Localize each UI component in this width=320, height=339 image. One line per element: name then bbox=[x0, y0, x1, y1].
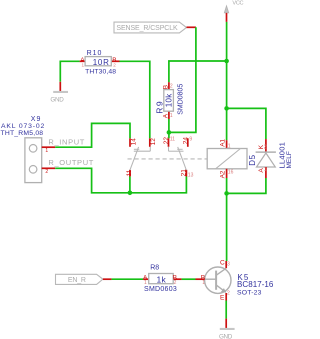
svg-text:B: B bbox=[163, 85, 170, 89]
svg-text:2: 2 bbox=[113, 63, 116, 68]
svg-text:10R: 10R bbox=[93, 58, 110, 67]
svg-text:SMD0603: SMD0603 bbox=[144, 286, 177, 293]
svg-text:2: 2 bbox=[170, 84, 173, 90]
svg-text:R8: R8 bbox=[150, 264, 159, 271]
svg-text:R_OUTPUT: R_OUTPUT bbox=[48, 158, 94, 167]
svg-text:9: 9 bbox=[189, 136, 192, 142]
svg-text:A2: A2 bbox=[220, 170, 227, 178]
svg-text:THT30,48: THT30,48 bbox=[85, 69, 116, 76]
svg-text:SMD0805: SMD0805 bbox=[177, 84, 184, 115]
supply VCC bbox=[224, 1, 243, 22]
wire R_INPUT bbox=[55, 123, 130, 147]
svg-text:C: C bbox=[220, 260, 225, 267]
wire R8 to base bbox=[182, 278, 196, 280]
label SENSE_R/CSPCLK bbox=[114, 22, 196, 33]
wire R9 top branch bbox=[169, 61, 227, 82]
svg-text:MELF: MELF bbox=[286, 151, 292, 168]
svg-text:2: 2 bbox=[45, 169, 48, 175]
wire SENSE net bbox=[169, 27, 196, 132]
svg-text:11: 11 bbox=[126, 169, 133, 176]
svg-text:3: 3 bbox=[227, 262, 230, 268]
junction dot A2 net bbox=[224, 191, 229, 196]
svg-text:A: A bbox=[163, 113, 170, 118]
svg-text:SOT-23: SOT-23 bbox=[237, 290, 262, 297]
svg-text:1: 1 bbox=[202, 280, 205, 286]
resistor R9 bbox=[155, 82, 185, 119]
wire pin11 down bbox=[129, 177, 131, 193]
junction dot VCC/R9 bbox=[224, 59, 229, 64]
svg-text:2: 2 bbox=[227, 291, 230, 297]
svg-text:16: 16 bbox=[228, 170, 234, 176]
svg-text:BC817-16: BC817-16 bbox=[237, 280, 274, 289]
resistor R8 bbox=[143, 264, 182, 293]
svg-text:X9: X9 bbox=[31, 116, 42, 123]
junction dot rail/pin11 bbox=[128, 191, 133, 196]
svg-text:1: 1 bbox=[45, 148, 48, 154]
ground GND (transistor) bbox=[219, 319, 235, 339]
svg-text:E: E bbox=[220, 295, 225, 302]
wire R10 left to gnd bbox=[60, 61, 79, 82]
wire diode branch bbox=[227, 108, 266, 139]
relay contact 1 (pins 14,12,11) bbox=[126, 138, 157, 177]
svg-text:1k: 1k bbox=[157, 274, 167, 284]
relay actuation dashed line bbox=[128, 158, 208, 160]
svg-text:14: 14 bbox=[130, 138, 137, 146]
resistor R10 bbox=[80, 50, 120, 75]
junction dot VCC/diode bbox=[224, 106, 229, 111]
transistor K5 bbox=[196, 260, 274, 302]
wire R_OUTPUT rail bbox=[55, 168, 186, 193]
svg-text:R9: R9 bbox=[155, 100, 165, 114]
svg-text:LL4001: LL4001 bbox=[277, 142, 286, 169]
svg-text:SENSE_R/CSPCLK: SENSE_R/CSPCLK bbox=[116, 25, 178, 32]
wire emitter to gnd bbox=[225, 301, 227, 319]
svg-text:GND: GND bbox=[219, 333, 233, 339]
svg-text:12: 12 bbox=[150, 138, 157, 146]
relay coil bbox=[207, 139, 247, 179]
wire coil A2 / diode A / collector net bbox=[227, 178, 266, 193]
svg-text:VCC: VCC bbox=[232, 1, 243, 7]
wire R10 right to pin12 bbox=[120, 61, 150, 138]
junction dot SENSE/R9 bbox=[167, 130, 172, 135]
svg-text:THT_RM5,08: THT_RM5,08 bbox=[1, 130, 44, 137]
svg-text:GND: GND bbox=[50, 96, 64, 103]
svg-text:1: 1 bbox=[264, 167, 267, 173]
svg-text:11: 11 bbox=[170, 136, 175, 142]
svg-text:1: 1 bbox=[82, 63, 85, 68]
svg-text:1: 1 bbox=[170, 113, 173, 119]
svg-text:R_INPUT: R_INPUT bbox=[48, 138, 85, 147]
svg-text:10k: 10k bbox=[165, 93, 174, 107]
ground GND (upper left) bbox=[50, 82, 68, 104]
connector X9 bbox=[1, 116, 56, 183]
svg-text:AKL 073-02: AKL 073-02 bbox=[1, 123, 45, 130]
label EN_R bbox=[56, 274, 112, 284]
wire EN_R to R8 bbox=[112, 278, 144, 280]
wire VCC vertical bbox=[226, 22, 228, 140]
svg-text:A1: A1 bbox=[220, 139, 227, 147]
diode D5 bbox=[248, 139, 293, 178]
svg-text:EN_R: EN_R bbox=[68, 277, 86, 284]
wire R9A to pin22 bbox=[168, 119, 170, 138]
svg-text:2: 2 bbox=[264, 145, 267, 151]
relay contact 2 (pins 22,24,21) bbox=[163, 136, 193, 178]
svg-text:13: 13 bbox=[188, 172, 194, 178]
svg-text:D5: D5 bbox=[248, 154, 257, 165]
